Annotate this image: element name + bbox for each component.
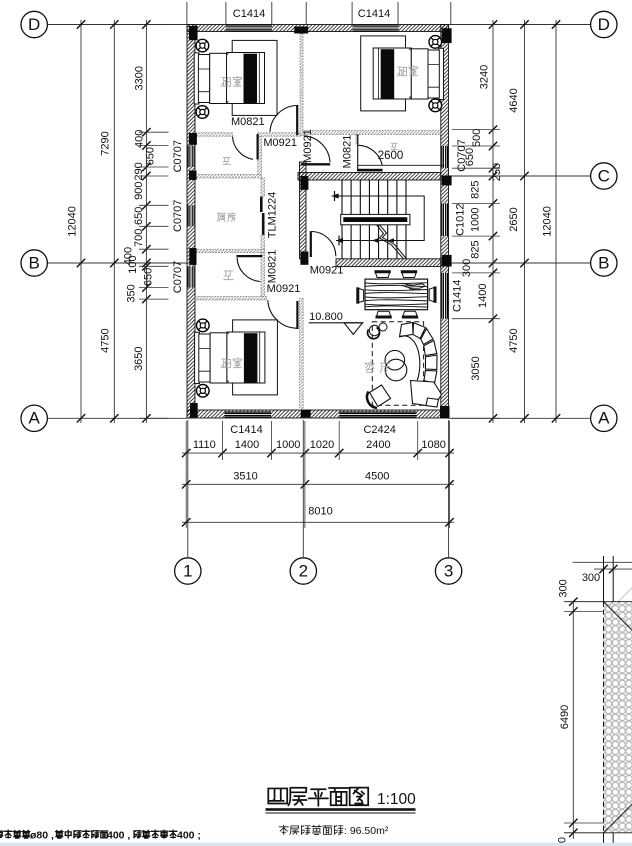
- svg-text:B: B: [29, 253, 40, 272]
- svg-text:650: 650: [144, 147, 156, 165]
- door M0921 stair-living arc: [311, 232, 336, 257]
- door M0921 bedroom3 (P5): leaf + arc: [296, 301, 298, 329]
- svg-text:B: B: [598, 253, 609, 272]
- window C1414 right (living): [441, 273, 448, 319]
- door M0821 bath1: leaf + swing arc: [257, 134, 259, 160]
- wall B axis (stairwell bottom): [336, 259, 441, 267]
- bed bedroom3 (bottom-left): [195, 320, 278, 395]
- wall exterior top: [187, 25, 449, 32]
- wall bedroom1/bedroom2 partition: [300, 34, 303, 136]
- wall kitchen bottom / bath2 top: [195, 249, 265, 252]
- svg-text:650: 650: [133, 207, 145, 225]
- svg-text:350: 350: [125, 284, 137, 302]
- axis bubbles right: D, C, B, A: [591, 11, 617, 37]
- window C0707 left lower: [188, 266, 195, 287]
- window C1414 bottom: [225, 412, 272, 418]
- svg-text:4640: 4640: [508, 88, 520, 112]
- bedside lamps bedroom3: [197, 319, 210, 332]
- stair walk line down arrow: [336, 238, 343, 243]
- svg-text:3240: 3240: [478, 65, 490, 89]
- fragment dimension 6490: [572, 602, 574, 839]
- column axis3/A: [440, 406, 450, 418]
- svg-text:300: 300: [582, 572, 600, 584]
- dining table: [365, 279, 428, 310]
- svg-text:12040: 12040: [541, 206, 553, 237]
- svg-text:M0821: M0821: [266, 250, 278, 284]
- svg-text:250: 250: [491, 163, 503, 181]
- svg-text:3650: 3650: [133, 346, 145, 370]
- room label bath2 卫: [224, 271, 234, 280]
- svg-text:: 96.50m²: : 96.50m²: [344, 825, 389, 837]
- left dimension ticks: [142, 20, 150, 28]
- svg-text:C0707: C0707: [172, 200, 184, 232]
- window C1012 right (stairs): [441, 203, 448, 236]
- svg-text:10.800: 10.800: [309, 311, 343, 323]
- svg-text:D: D: [598, 15, 610, 34]
- svg-text:4750: 4750: [508, 328, 520, 352]
- stair treads: [342, 180, 406, 259]
- bottom pale strip: [0, 843, 632, 846]
- armchair bottom-left of living: [370, 385, 391, 407]
- column axis1/A: [190, 403, 198, 417]
- window C1414 top-right: [353, 25, 399, 32]
- door M0821 bath2 arc: [237, 258, 260, 282]
- bedside lamps bedroom1: [196, 39, 209, 52]
- axis grid lines: [48, 24, 188, 26]
- svg-text:D: D: [28, 15, 40, 34]
- window C0707 left middle: [188, 205, 195, 226]
- svg-text:1000: 1000: [470, 208, 482, 232]
- window C0707 right (bath3): [441, 146, 448, 168]
- svg-text:8010: 8010: [308, 505, 332, 517]
- coffee tables (circles): [385, 350, 405, 370]
- svg-text:C: C: [598, 166, 610, 185]
- bed bedroom2 (top-right, mirrored): [361, 36, 444, 111]
- svg-text:650: 650: [142, 268, 154, 286]
- room label bedroom3 卧室: [221, 359, 230, 368]
- svg-text:2: 2: [299, 561, 308, 580]
- bottom dimension lines: [182, 452, 454, 454]
- wall C axis (stairwell top): [298, 173, 441, 181]
- door M0921 bedroom1 arc: [270, 106, 297, 132]
- room label bath3 卫: [391, 143, 398, 149]
- stair break line: [377, 225, 404, 259]
- column axis3/B: [442, 255, 452, 267]
- left dimension lines: [80, 20, 82, 423]
- axis bubbles left: D, B, A: [21, 11, 47, 37]
- svg-text:C0707: C0707: [172, 140, 184, 172]
- door M0821 bath1 arc: [233, 137, 254, 160]
- svg-text:1:100: 1:100: [377, 791, 416, 808]
- svg-text:1400: 1400: [235, 439, 259, 451]
- wall corridor west (bath2 right): [261, 253, 265, 297]
- door M0921 bedroom2 arc: [304, 136, 330, 163]
- top extension lines: [186, 2, 188, 25]
- wall kitchen top: [195, 175, 262, 179]
- column left wall at bedroom1 bottom: [189, 133, 197, 145]
- svg-text:7290: 7290: [100, 131, 112, 155]
- room label bedroom1 卧室: [221, 77, 230, 86]
- door M0821 bath3: jamb + arc + leaf + threshold: [357, 135, 359, 172]
- svg-text:3: 3: [444, 561, 453, 580]
- bed bedroom1 (top-left): [194, 40, 277, 115]
- svg-text:C1414: C1414: [230, 424, 262, 436]
- svg-text:3050: 3050: [470, 356, 482, 380]
- column axis3/C: [442, 176, 452, 186]
- svg-text:M0921: M0921: [263, 137, 297, 149]
- svg-text:2400: 2400: [366, 439, 390, 451]
- svg-text:TLM1224: TLM1224: [266, 192, 278, 238]
- door M0921 bedroom2 (P2): leaf + arc: [301, 163, 330, 165]
- svg-text:M0921: M0921: [267, 283, 301, 295]
- svg-text:300: 300: [558, 579, 570, 597]
- svg-text:1110: 1110: [193, 439, 216, 451]
- svg-text:4500: 4500: [365, 470, 389, 482]
- door M0821 bath3 arc: [358, 145, 382, 165]
- svg-text:C1012: C1012: [454, 203, 466, 235]
- room label living 客厅: [365, 362, 374, 372]
- svg-text:12040: 12040: [66, 206, 78, 237]
- title underline: [266, 808, 416, 811]
- svg-text:1: 1: [183, 561, 192, 580]
- tea set / plant top-left of living: [369, 325, 379, 335]
- wall bedroom3 top: [195, 297, 267, 301]
- door M0821 bath2 (P4): leaf + arc: [236, 255, 262, 257]
- sofa: [399, 323, 441, 408]
- column axis2/D: [294, 27, 308, 34]
- column left wall at kitchen bottom/B: [189, 248, 196, 265]
- wall axis2 stair side: [300, 162, 307, 259]
- svg-text:C0707: C0707: [172, 261, 184, 293]
- adjacent drawing fragment bottom-right: [573, 561, 632, 563]
- svg-text:M0821: M0821: [341, 135, 353, 169]
- room label bedroom2 卧室: [397, 67, 406, 76]
- door M0921 stairhall/living (P3): leaf + arc: [310, 231, 312, 257]
- svg-text:0: 0: [556, 837, 568, 843]
- stair handrail: [341, 214, 410, 224]
- bedside lamps bedroom2: [429, 36, 442, 49]
- room label kitchen 厨房: [217, 213, 226, 221]
- svg-text:1400: 1400: [477, 284, 489, 308]
- column axis1/D: [189, 26, 198, 40]
- svg-text:M0921: M0921: [310, 264, 344, 276]
- svg-text:825: 825: [470, 240, 482, 258]
- bottom dimension ticks: [182, 449, 190, 457]
- svg-text:2600: 2600: [378, 150, 404, 162]
- column left wall at C: [189, 171, 197, 181]
- wall bedroom3 right / living west: [300, 299, 304, 411]
- svg-text:1080: 1080: [421, 439, 445, 451]
- svg-text:500: 500: [471, 129, 483, 147]
- wall exterior bottom: [187, 410, 449, 418]
- svg-text:C1414: C1414: [358, 8, 390, 20]
- column axis2/A: [301, 410, 311, 418]
- svg-text:400 ,: 400 ,: [107, 830, 130, 842]
- axis bubbles bottom: 1, 2, 3: [187, 420, 189, 557]
- title 四层平面图: [268, 788, 287, 803]
- area note 本层建筑面积: 96.50m2: [279, 825, 288, 834]
- door M0921 bedroom3 arc: [268, 300, 297, 328]
- wall kitchen right lower: [261, 235, 265, 249]
- svg-text:C1414: C1414: [451, 280, 463, 312]
- wall bedroom1 bottom east: [258, 133, 300, 136]
- wall kitchen right upper: [261, 178, 265, 197]
- right dimension ticks: [489, 20, 497, 28]
- right dimension lines: [492, 20, 494, 423]
- svg-text:825: 825: [470, 181, 482, 199]
- svg-text:4750: 4750: [100, 328, 112, 352]
- sliding door TLM1224 kitchen: two leaves: [260, 197, 263, 212]
- svg-text:300: 300: [461, 259, 473, 277]
- svg-text:1000: 1000: [276, 439, 300, 451]
- svg-text:M0821: M0821: [231, 116, 265, 128]
- dashed region outline (living): [372, 322, 423, 406]
- room label bath1 卫: [223, 158, 230, 165]
- svg-text:1020: 1020: [310, 439, 334, 451]
- svg-text:900: 900: [133, 182, 145, 200]
- svg-text:M0921: M0921: [302, 129, 314, 163]
- wall bedroom1 bottom west: [195, 133, 233, 136]
- dining chairs: [375, 271, 391, 278]
- mesh hatched band: [604, 602, 632, 833]
- svg-text:100: 100: [127, 255, 139, 273]
- window C0707 left upper: [188, 146, 195, 168]
- svg-text:6490: 6490: [559, 705, 571, 729]
- svg-text:2650: 2650: [508, 207, 520, 231]
- svg-text:290: 290: [133, 162, 145, 180]
- svg-text:ø80 ,: ø80 ,: [30, 830, 54, 842]
- column axis3/D: [442, 28, 452, 43]
- wall exterior right: [441, 25, 449, 419]
- column axis2/B: [300, 252, 308, 265]
- svg-text:3510: 3510: [233, 470, 257, 482]
- wall bedroom2 bottom / bath3 top: [304, 131, 441, 135]
- door M0921 bedroom1 (P1): leaf + arc: [296, 105, 298, 135]
- svg-text:A: A: [598, 409, 610, 428]
- wall bath3 west stub: [356, 135, 359, 145]
- wall bath1 right: [258, 136, 262, 174]
- column axis2/C: [300, 176, 308, 190]
- svg-text:C2424: C2424: [363, 424, 395, 436]
- svg-text:400 ;: 400 ;: [177, 830, 201, 842]
- stair walk line up: [332, 196, 425, 241]
- bottom-left note text: [0, 830, 3, 838]
- window C1414 top-left: [226, 25, 272, 32]
- svg-text:400: 400: [133, 130, 145, 148]
- window C2424 bottom: [339, 412, 416, 418]
- svg-text:C0707: C0707: [456, 139, 468, 171]
- svg-text:C1414: C1414: [233, 8, 265, 20]
- svg-text:A: A: [29, 409, 41, 428]
- wall exterior left: [187, 25, 195, 419]
- svg-text:700: 700: [133, 229, 145, 247]
- svg-text:3300: 3300: [133, 66, 145, 90]
